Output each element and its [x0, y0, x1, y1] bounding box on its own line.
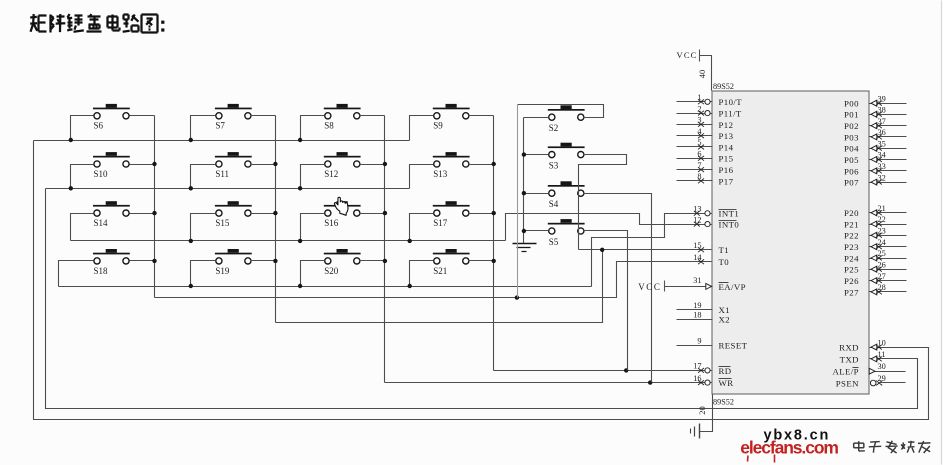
wire S6 left pin to row line 1 [71, 116, 94, 141]
svg-text:18: 18 [693, 311, 701, 320]
svg-text:elecfans.com: elecfans.com [740, 438, 838, 458]
wire S10 right pin to column 1 [130, 164, 155, 166]
junction dots on row line 3 [189, 239, 412, 243]
wire S4 right pin route to WR net [584, 194, 652, 383]
power VCC top [677, 50, 700, 62]
wire S16 left pin to row line 3 [301, 214, 325, 241]
wire S2 right pin loop to column1/T0 net [518, 105, 604, 118]
wire S19 right pin to column 2 [251, 260, 276, 262]
svg-text:P15: P15 [719, 154, 734, 164]
wire net row2 to TXD (P3.1) [46, 189, 918, 409]
svg-text:P04: P04 [844, 144, 859, 154]
svg-text:28: 28 [878, 283, 886, 292]
pushbutton S21 [433, 249, 470, 276]
pushbutton S12 [324, 152, 361, 179]
pin 23 P22 stub [869, 227, 907, 239]
pin 22 P21 stub [869, 215, 907, 227]
pin 36 P03 stub [869, 128, 907, 140]
wire net column4 to RD pin 17 [494, 370, 713, 372]
svg-text:RESET: RESET [719, 341, 748, 351]
svg-text:9: 9 [697, 336, 701, 345]
wire S8 left pin to row line 1 [301, 116, 325, 141]
svg-text:27: 27 [878, 272, 886, 281]
svg-text:13: 13 [693, 205, 701, 214]
pin 27 P26 stub [869, 272, 907, 284]
svg-text:22: 22 [878, 215, 886, 224]
pin 21 P20 stub [869, 204, 907, 216]
wire S11 right pin to column 2 [251, 164, 276, 166]
svg-text:P10/T: P10/T [719, 97, 743, 107]
wire S13 left pin to row line 2 [410, 165, 434, 189]
svg-text:S16: S16 [324, 218, 339, 228]
pin 34 P05 stub [869, 151, 907, 163]
pushbutton S2 [548, 105, 585, 133]
wire S14 left pin to row line 3 [71, 214, 94, 241]
pushbutton S13 [433, 152, 470, 179]
title text 矩阵键盘电路图: [30, 14, 164, 32]
junction dots on column line 3 [383, 162, 387, 263]
svg-text:P12: P12 [719, 120, 734, 130]
wire S17 right pin to column 4 [469, 213, 494, 215]
wire net row4 to INT1 pin 13 [592, 214, 713, 287]
svg-text:WR: WR [719, 378, 734, 388]
pin 4 P13 stub [677, 127, 713, 138]
svg-text:RXD: RXD [839, 343, 859, 353]
pin 26 P25 stub [869, 260, 907, 272]
svg-text:S19: S19 [215, 266, 230, 276]
svg-text:26: 26 [878, 260, 886, 269]
svg-text:T1: T1 [719, 245, 730, 255]
svg-text:S9: S9 [433, 121, 443, 131]
svg-text:19: 19 [693, 301, 701, 310]
svg-text:S5: S5 [549, 237, 559, 247]
wire S21 right pin to column 4 [469, 260, 494, 262]
svg-text:P26: P26 [844, 276, 859, 286]
svg-text:37: 37 [878, 117, 886, 126]
power VCC at EA/VP [638, 281, 664, 293]
pin 14 T0 marker [693, 253, 704, 264]
junction dots on column line 4 [492, 162, 496, 263]
wire S3 right pin route to T1 net [579, 155, 627, 250]
pin 3 P12 stub [677, 116, 713, 127]
wire pin 20 to ground [700, 395, 713, 432]
wire S18 right pin to column 1 [130, 260, 155, 262]
svg-text:S15: S15 [215, 218, 230, 228]
wire S2 net gray vertical down [517, 105, 519, 298]
svg-text:P06: P06 [844, 166, 859, 176]
svg-text:14: 14 [693, 253, 702, 262]
pushbutton S8 [324, 104, 361, 131]
pin 33 P06 stub [869, 162, 907, 174]
wire row line 3 (y=240.9) [71, 240, 506, 242]
wire row line 2 (y=188.3) [46, 188, 410, 190]
svg-text:S3: S3 [549, 161, 559, 171]
svg-text:S10: S10 [94, 169, 109, 179]
svg-text:P07: P07 [844, 178, 859, 188]
junction dots on row line 1 [69, 138, 303, 142]
pin 17 RD marker [693, 362, 710, 373]
image right edge border [941, 1, 943, 465]
pin 39 P00 stub [869, 94, 907, 106]
wire S12 right pin to column 3 [360, 164, 385, 166]
wire S13 right pin to column 4 [469, 164, 494, 166]
svg-text:S7: S7 [215, 121, 225, 131]
svg-text:S6: S6 [94, 121, 104, 131]
svg-text:S17: S17 [433, 218, 448, 228]
pin 6 P15 stub [677, 150, 713, 161]
svg-text:RD: RD [719, 366, 732, 376]
svg-text:31: 31 [693, 276, 701, 285]
wire S19 left pin to row line 4 [191, 261, 216, 287]
svg-text:P24: P24 [844, 253, 859, 263]
pushbutton S10 [93, 152, 130, 179]
wire S11 left pin to row line 2 [191, 165, 216, 189]
svg-text:P20: P20 [844, 208, 859, 218]
wire S8 right pin to column 3 [360, 115, 385, 117]
svg-text:S21: S21 [433, 266, 447, 276]
svg-text:P11/T: P11/T [719, 109, 742, 119]
wire S10 left pin to row line 2 [71, 165, 94, 189]
wire S20 right pin to column 3 [360, 260, 385, 262]
pin 30 ALE/P stub [869, 362, 905, 374]
wire S2-S5 common ground vertical [523, 118, 525, 244]
svg-text:INT1: INT1 [719, 209, 740, 219]
wire S16 right pin to column 3 [360, 213, 385, 215]
svg-text:P27: P27 [844, 287, 859, 297]
pushbutton S20 [324, 249, 361, 276]
IC U1 AT89S52 body [712, 91, 869, 394]
svg-text:P00: P00 [844, 99, 859, 109]
junction node column4/S5 net [624, 368, 628, 372]
svg-text:P23: P23 [844, 242, 859, 252]
svg-text:INT0: INT0 [719, 220, 740, 230]
ground symbol pin 20 [691, 424, 700, 439]
svg-text:P22: P22 [844, 231, 859, 241]
pin 7 P16 stub [677, 161, 713, 172]
pushbutton S9 [433, 104, 470, 131]
svg-text:P05: P05 [844, 155, 859, 165]
pushbutton S16 [324, 201, 361, 228]
svg-text:12: 12 [693, 215, 701, 224]
wire net row1 to RXD (P3.0) [34, 141, 929, 420]
pin 38 P01 stub [869, 106, 907, 118]
wire column line 1 vertical (x=154.5) [154, 116, 156, 298]
svg-text:20: 20 [698, 406, 707, 414]
pin 37 P02 stub [869, 117, 907, 129]
svg-text:11: 11 [878, 350, 886, 359]
pin 15 T1 marker [693, 241, 704, 252]
pin 13 INT1 marker [693, 205, 710, 216]
wire net column3 to WR pin 16 [385, 382, 713, 384]
svg-text:P21: P21 [844, 219, 859, 229]
svg-text:P03: P03 [844, 132, 859, 142]
pin 32 P07 stub [869, 173, 907, 185]
svg-text:S20: S20 [324, 266, 339, 276]
svg-text:39: 39 [878, 94, 886, 103]
IC pin labels left column [719, 97, 748, 388]
IC pin labels right column [832, 99, 859, 389]
pin 11 TXD marker [871, 350, 886, 362]
svg-text:30: 30 [878, 362, 886, 371]
wire S18 left pin to row line 4 [59, 261, 94, 287]
wire S14 right pin to column 1 [130, 213, 155, 215]
pushbutton S14 [93, 201, 130, 228]
wire row line 4 (y=286.0) [59, 286, 592, 288]
svg-text:P14: P14 [719, 142, 734, 152]
pin 29 PSEN stub [870, 374, 905, 386]
wire row line 1 (y=140.0) [34, 140, 410, 142]
pin 28 P27 stub [869, 283, 907, 295]
pushbutton S11 [215, 152, 252, 179]
svg-text:PSEN: PSEN [836, 378, 859, 388]
svg-text:S13: S13 [433, 169, 448, 179]
pin 35 P04 stub [869, 140, 907, 152]
pin 18 X2 stub [677, 311, 713, 320]
wire S17 left pin to row line 3 [410, 214, 434, 241]
svg-text:89S52: 89S52 [713, 82, 734, 91]
svg-text:S11: S11 [215, 169, 229, 179]
pushbutton S5 [548, 219, 585, 247]
svg-text:S8: S8 [324, 121, 334, 131]
svg-text:P01: P01 [844, 110, 859, 120]
svg-text:23: 23 [878, 227, 886, 236]
svg-text:X2: X2 [719, 315, 731, 325]
wire S5 right pin route to RD net [584, 231, 628, 371]
wire S6 right pin to column 1 [130, 115, 155, 117]
pin 12 INT0 marker [693, 215, 710, 226]
pin 1 P10 stub [677, 93, 713, 104]
pin 16 WR marker [693, 374, 710, 385]
junction dots on common ground vertical [522, 152, 526, 233]
wire S5 left pin to common ground line [524, 230, 549, 232]
svg-text:S14: S14 [94, 218, 109, 228]
svg-text:21: 21 [878, 204, 886, 213]
wire S15 right pin to column 2 [251, 213, 276, 215]
wire VCC to EA/VP pin 31 [665, 286, 713, 288]
pin 24 P23 stub [869, 238, 907, 250]
svg-text:S18: S18 [94, 266, 109, 276]
svg-text:38: 38 [878, 106, 886, 115]
wire T1 pin stub [579, 249, 713, 251]
pin 2 P11 stub [677, 104, 713, 115]
pin 8 P17 stub [677, 172, 713, 183]
junction dots on row line 2 [69, 186, 303, 190]
svg-text:33: 33 [878, 162, 886, 171]
wire S9 left pin to row line 1 [410, 116, 434, 141]
svg-text:32: 32 [878, 173, 886, 182]
svg-text:EA/VP: EA/VP [719, 282, 746, 292]
wire S15 left pin to row line 3 [191, 214, 216, 241]
svg-text:P02: P02 [844, 121, 859, 131]
mouse hand cursor over S16 [334, 197, 348, 215]
svg-text:35: 35 [878, 140, 886, 149]
svg-text:25: 25 [878, 249, 886, 258]
pin 31 EA/VP marker [693, 276, 711, 289]
wire S2 left pin to common ground line [524, 117, 549, 119]
pushbutton S3 [548, 143, 585, 171]
pushbutton S19 [215, 249, 252, 276]
svg-text:P17: P17 [719, 176, 734, 186]
svg-text:P13: P13 [719, 131, 734, 141]
svg-text:ALE/P: ALE/P [832, 367, 858, 377]
svg-text:36: 36 [878, 128, 886, 137]
watermark elecfans.com [740, 438, 838, 463]
pin 10 RXD marker [871, 338, 886, 350]
svg-text:34: 34 [878, 151, 887, 160]
svg-text:89S52: 89S52 [713, 398, 734, 407]
svg-text:T0: T0 [719, 257, 730, 267]
svg-text:S4: S4 [549, 199, 559, 209]
pin 25 P24 stub [869, 249, 907, 261]
svg-text:24: 24 [878, 238, 887, 247]
wire net row3 to INT0 pin 12 [506, 214, 713, 241]
pin 5 P14 stub [677, 138, 713, 149]
junction node column1/S2 net [515, 295, 519, 299]
wire S12 left pin to row line 2 [301, 165, 325, 189]
junction dots on column line 1 [152, 162, 156, 263]
pushbutton S15 [215, 201, 252, 228]
pushbutton S7 [215, 104, 252, 131]
junction dots on row line 4 [189, 284, 412, 288]
junction node column2/S3 net at T1 [600, 248, 604, 252]
wire S20 left pin to row line 4 [301, 261, 325, 287]
svg-text:S12: S12 [324, 169, 338, 179]
pin 9 RESET stub [677, 336, 713, 345]
wire net column2 to T1 pin 15 [276, 250, 603, 323]
junction dots on column line 2 [273, 162, 277, 263]
ground symbol keypad [513, 244, 537, 252]
junction node column3/S4 net [648, 380, 652, 384]
wire S3 left pin to common ground line [524, 154, 549, 156]
svg-text:10: 10 [878, 338, 886, 347]
wire S21 left pin to row line 4 [410, 261, 434, 287]
svg-text:P16: P16 [719, 165, 734, 175]
watermark 电子发烧友 [854, 441, 931, 453]
wire column line 3 vertical (x=384.9) [384, 116, 386, 383]
pin 19 X1 stub [677, 301, 713, 310]
wire S9 right pin to column 4 [469, 115, 494, 117]
svg-text:VCC: VCC [638, 282, 661, 292]
pushbutton S4 [548, 181, 585, 209]
svg-text:VCC: VCC [677, 50, 698, 60]
svg-text:P25: P25 [844, 265, 859, 275]
wire column line 2 vertical (x=275.4) [275, 116, 277, 323]
wire S4 left pin to common ground line [524, 193, 549, 195]
wire VCC to pin 40 [700, 56, 712, 91]
pushbutton S6 [93, 104, 130, 131]
wire column line 4 vertical (x=493.7) [493, 116, 495, 371]
pushbutton S18 [93, 249, 130, 276]
wire S7 right pin to column 2 [251, 115, 276, 117]
svg-text:TXD: TXD [840, 354, 859, 364]
svg-text:40: 40 [698, 70, 707, 78]
wire net column1 to T0 pin 14 [155, 262, 713, 298]
wire S7 left pin to row line 1 [191, 116, 216, 141]
pushbutton S17 [433, 201, 470, 228]
svg-text:X1: X1 [719, 305, 731, 315]
svg-text:S2: S2 [549, 123, 559, 133]
